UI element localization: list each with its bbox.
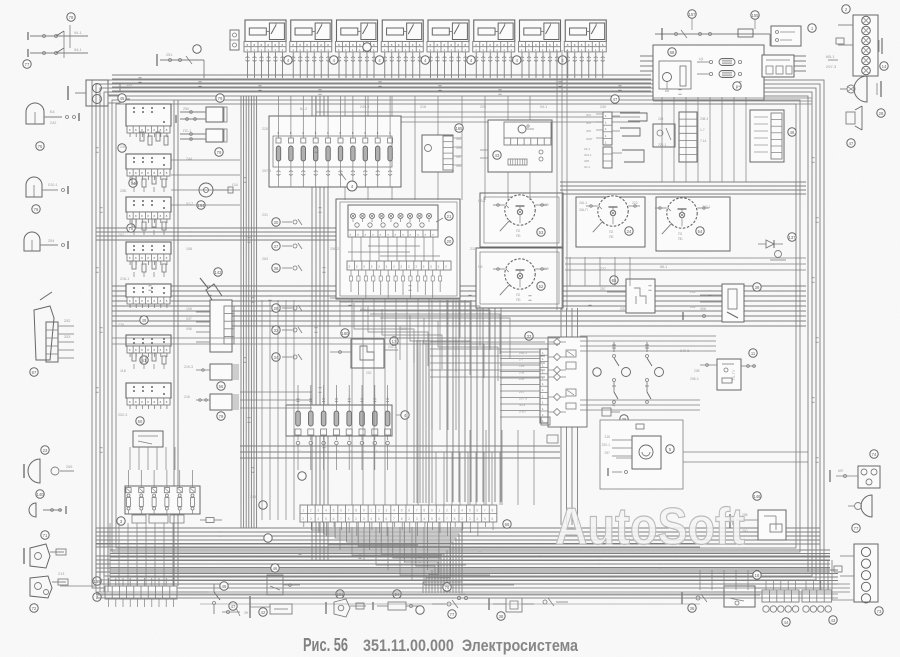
svg-text:244: 244 xyxy=(186,157,192,161)
svg-text:146: 146 xyxy=(754,494,762,499)
svg-text:242: 242 xyxy=(50,121,56,125)
svg-text:76: 76 xyxy=(445,585,450,590)
svg-text:6-8Л: 6-8Л xyxy=(519,410,526,414)
svg-text:94-1: 94-1 xyxy=(74,31,82,35)
svg-text:52: 52 xyxy=(539,284,544,289)
svg-text:108: 108 xyxy=(186,247,192,251)
svg-text:37: 37 xyxy=(274,244,279,249)
svg-text:7: 7 xyxy=(484,509,486,513)
svg-text:4: 4 xyxy=(317,517,319,521)
svg-text:9: 9 xyxy=(431,509,433,513)
svg-text:137: 137 xyxy=(789,235,797,240)
svg-text:43: 43 xyxy=(831,618,836,623)
svg-text:305: 305 xyxy=(586,129,591,133)
svg-text:3: 3 xyxy=(454,509,456,513)
svg-text:249-5: 249-5 xyxy=(680,349,689,353)
svg-text:210: 210 xyxy=(470,247,476,251)
svg-text:142: 142 xyxy=(215,270,223,275)
svg-text:297-3: 297-3 xyxy=(826,64,837,69)
svg-text:28: 28 xyxy=(879,111,884,116)
svg-text:155: 155 xyxy=(752,13,760,18)
svg-text:30-4: 30-4 xyxy=(584,165,590,169)
svg-text:207: 207 xyxy=(519,390,525,394)
svg-text:6: 6 xyxy=(386,517,388,521)
svg-text:7: 7 xyxy=(340,517,342,521)
svg-text:6: 6 xyxy=(439,517,441,521)
svg-text:Л10-1: Л10-1 xyxy=(48,183,58,187)
svg-text:263: 263 xyxy=(262,257,268,261)
svg-text:216: 216 xyxy=(604,435,610,439)
svg-text:096: 096 xyxy=(186,327,192,331)
svg-text:3: 3 xyxy=(416,517,418,521)
svg-text:3: 3 xyxy=(310,517,312,521)
svg-text:203: 203 xyxy=(400,327,406,331)
svg-text:18: 18 xyxy=(755,573,760,578)
svg-text:94-1: 94-1 xyxy=(74,48,82,52)
svg-text:697: 697 xyxy=(838,469,844,473)
svg-text:4: 4 xyxy=(393,509,395,513)
svg-text:309: 309 xyxy=(456,146,462,150)
svg-text:77: 77 xyxy=(450,612,455,617)
svg-text:ПС-1: ПС-1 xyxy=(183,129,191,133)
svg-text:208-3: 208-3 xyxy=(690,377,699,381)
svg-text:4: 4 xyxy=(461,509,463,513)
svg-text:36: 36 xyxy=(690,606,695,611)
svg-text:304: 304 xyxy=(586,121,591,125)
svg-text:1-7: 1-7 xyxy=(519,358,524,362)
svg-text:207-3: 207-3 xyxy=(519,397,527,401)
svg-text:2: 2 xyxy=(461,517,463,521)
svg-text:53: 53 xyxy=(539,230,544,235)
svg-text:259: 259 xyxy=(66,465,72,469)
svg-text:4: 4 xyxy=(476,517,478,521)
svg-text:232: 232 xyxy=(690,305,696,309)
svg-text:ПБ: ПБ xyxy=(516,234,521,238)
svg-text:7-14: 7-14 xyxy=(700,139,707,143)
svg-text:88-1: 88-1 xyxy=(660,265,667,269)
svg-text:8: 8 xyxy=(348,517,350,521)
svg-text:231: 231 xyxy=(262,213,268,217)
svg-text:2: 2 xyxy=(302,517,304,521)
svg-text:216-1: 216-1 xyxy=(120,277,129,281)
svg-text:45: 45 xyxy=(222,584,227,589)
svg-text:230-1: 230-1 xyxy=(519,351,527,355)
svg-text:71: 71 xyxy=(43,533,48,538)
svg-text:2: 2 xyxy=(355,517,357,521)
svg-text:2Ш-1: 2Ш-1 xyxy=(579,201,587,205)
svg-text:47: 47 xyxy=(849,141,854,146)
svg-text:297-1: 297-1 xyxy=(262,169,271,173)
svg-text:202-2: 202-2 xyxy=(388,345,397,349)
svg-text:252: 252 xyxy=(64,319,70,323)
svg-text:208: 208 xyxy=(519,371,525,375)
svg-text:П2: П2 xyxy=(609,230,613,234)
svg-text:43: 43 xyxy=(495,153,500,158)
svg-text:44: 44 xyxy=(784,620,789,625)
svg-text:202: 202 xyxy=(366,371,372,375)
svg-text:65: 65 xyxy=(612,278,617,283)
svg-text:139: 139 xyxy=(519,364,525,368)
svg-text:207: 207 xyxy=(118,233,124,237)
svg-text:ПБ: ПБ xyxy=(516,298,521,302)
svg-text:8: 8 xyxy=(355,509,357,513)
svg-text:79: 79 xyxy=(219,414,224,419)
svg-text:256-2: 256-2 xyxy=(330,247,339,251)
svg-text:219-3: 219-3 xyxy=(184,365,193,369)
svg-text:2Ш-П: 2Ш-П xyxy=(579,208,588,212)
svg-text:140: 140 xyxy=(37,492,45,497)
svg-text:254: 254 xyxy=(48,239,54,243)
svg-text:Рис. 56: Рис. 56 xyxy=(303,635,348,655)
svg-text:7: 7 xyxy=(416,509,418,513)
svg-text:36: 36 xyxy=(274,266,279,271)
svg-text:НБ: НБ xyxy=(478,265,483,269)
svg-text:8: 8 xyxy=(423,509,425,513)
svg-text:157: 157 xyxy=(689,12,697,17)
svg-text:160: 160 xyxy=(342,331,350,336)
svg-text:233: 233 xyxy=(620,307,626,311)
svg-text:СШ: СШ xyxy=(232,183,238,187)
svg-text:216: 216 xyxy=(184,395,190,399)
svg-text:7: 7 xyxy=(446,517,448,521)
svg-text:2: 2 xyxy=(408,517,410,521)
svg-text:66: 66 xyxy=(505,522,510,527)
svg-text:300: 300 xyxy=(456,164,462,168)
svg-text:214: 214 xyxy=(250,495,256,499)
svg-text:7: 7 xyxy=(393,517,395,521)
svg-text:3: 3 xyxy=(363,517,365,521)
svg-text:45: 45 xyxy=(120,96,125,101)
svg-text:208: 208 xyxy=(694,369,700,373)
svg-text:54: 54 xyxy=(698,229,703,234)
svg-text:ПБ: ПБ xyxy=(609,235,614,239)
svg-text:4: 4 xyxy=(423,517,425,521)
svg-text:351.11.00.000 Электросистема: 351.11.00.000 Электросистема xyxy=(363,637,579,655)
svg-text:118: 118 xyxy=(120,369,126,373)
svg-text:50: 50 xyxy=(138,419,143,424)
svg-text:30.3: 30.3 xyxy=(519,403,525,407)
svg-text:2: 2 xyxy=(446,509,448,513)
svg-text:6: 6 xyxy=(340,509,342,513)
svg-text:1: 1 xyxy=(439,509,441,513)
svg-text:76: 76 xyxy=(34,207,39,212)
svg-text:74: 74 xyxy=(131,181,136,186)
svg-text:39: 39 xyxy=(755,285,760,290)
svg-text:250: 250 xyxy=(183,107,189,111)
svg-text:209: 209 xyxy=(519,377,525,381)
svg-text:75: 75 xyxy=(38,144,43,149)
svg-text:49: 49 xyxy=(142,318,147,323)
svg-text:77: 77 xyxy=(25,62,30,67)
svg-text:222: 222 xyxy=(632,201,638,205)
svg-text:6: 6 xyxy=(408,509,410,513)
svg-text:П2: П2 xyxy=(678,232,682,236)
svg-text:29-4: 29-4 xyxy=(584,147,590,151)
svg-text:149: 149 xyxy=(126,83,132,87)
svg-text:297: 297 xyxy=(604,451,610,455)
svg-text:302: 302 xyxy=(586,113,591,117)
svg-text:47: 47 xyxy=(613,97,618,102)
svg-text:3: 3 xyxy=(469,517,471,521)
svg-text:108: 108 xyxy=(186,307,192,311)
svg-text:8: 8 xyxy=(401,517,403,521)
svg-text:П2: П2 xyxy=(516,229,520,233)
svg-text:5: 5 xyxy=(325,517,327,521)
svg-text:74: 74 xyxy=(872,452,877,457)
svg-text:46: 46 xyxy=(273,566,278,571)
svg-text:2: 2 xyxy=(310,509,312,513)
svg-text:2: 2 xyxy=(378,509,380,513)
svg-text:30: 30 xyxy=(274,220,279,225)
svg-text:AutoSoft: AutoSoft xyxy=(555,498,745,556)
svg-text:240: 240 xyxy=(600,105,606,109)
svg-text:6: 6 xyxy=(492,517,494,521)
svg-text:308: 308 xyxy=(584,159,589,163)
svg-text:79: 79 xyxy=(217,150,222,155)
svg-text:47: 47 xyxy=(231,604,236,609)
svg-text:231: 231 xyxy=(690,290,696,294)
svg-text:21: 21 xyxy=(447,214,452,219)
svg-text:НБ-1: НБ-1 xyxy=(478,199,486,203)
svg-text:218: 218 xyxy=(420,105,426,109)
svg-text:9: 9 xyxy=(363,509,365,513)
svg-text:261: 261 xyxy=(360,307,366,311)
svg-text:238: 238 xyxy=(118,323,124,327)
svg-text:304-1: 304-1 xyxy=(584,153,592,157)
svg-text:68: 68 xyxy=(670,50,675,55)
svg-text:73: 73 xyxy=(877,609,882,614)
svg-text:205: 205 xyxy=(480,105,486,109)
svg-text:84-2: 84-2 xyxy=(300,107,307,111)
svg-text:97-2: 97-2 xyxy=(186,202,193,206)
svg-text:1-7: 1-7 xyxy=(700,128,705,132)
svg-text:8: 8 xyxy=(492,509,494,513)
svg-text:46: 46 xyxy=(790,130,795,135)
svg-text:306: 306 xyxy=(700,307,706,311)
svg-text:302: 302 xyxy=(456,137,462,141)
svg-text:Б4: Б4 xyxy=(50,110,55,114)
svg-text:79: 79 xyxy=(218,96,223,101)
svg-text:3: 3 xyxy=(317,509,319,513)
svg-text:77: 77 xyxy=(854,526,859,531)
svg-text:213: 213 xyxy=(58,572,64,576)
svg-text:253: 253 xyxy=(64,335,70,339)
svg-text:4: 4 xyxy=(325,509,327,513)
svg-text:1: 1 xyxy=(302,509,304,513)
svg-text:1: 1 xyxy=(370,509,372,513)
svg-text:94-1: 94-1 xyxy=(540,105,547,109)
svg-text:6: 6 xyxy=(333,517,335,521)
svg-text:5: 5 xyxy=(469,509,471,513)
svg-text:5: 5 xyxy=(333,509,335,513)
svg-text:56: 56 xyxy=(219,384,224,389)
svg-text:П2: П2 xyxy=(516,293,520,297)
svg-text:3Н: 3Н xyxy=(244,611,249,615)
svg-text:251: 251 xyxy=(166,53,172,57)
svg-text:78: 78 xyxy=(69,15,74,20)
svg-text:257: 257 xyxy=(600,287,606,291)
svg-text:240-1: 240-1 xyxy=(702,205,711,209)
svg-text:3: 3 xyxy=(386,509,388,513)
svg-text:5: 5 xyxy=(401,509,403,513)
svg-text:5: 5 xyxy=(431,517,433,521)
svg-text:42: 42 xyxy=(261,610,266,615)
svg-text:165: 165 xyxy=(456,126,464,131)
svg-text:249-3: 249-3 xyxy=(360,105,369,109)
svg-text:25Б: 25Б xyxy=(120,189,127,193)
svg-text:20: 20 xyxy=(447,239,452,244)
svg-text:КВ-1: КВ-1 xyxy=(826,54,835,59)
svg-text:097: 097 xyxy=(186,317,192,321)
svg-text:23: 23 xyxy=(43,448,48,453)
svg-text:11: 11 xyxy=(751,351,756,356)
svg-text:72: 72 xyxy=(32,606,37,611)
svg-text:5: 5 xyxy=(484,517,486,521)
svg-text:7: 7 xyxy=(348,509,350,513)
svg-text:300Г: 300Г xyxy=(586,137,593,141)
svg-text:220-1: 220-1 xyxy=(602,443,611,447)
svg-text:220: 220 xyxy=(262,127,268,131)
svg-text:Ц1: Ц1 xyxy=(699,57,704,61)
svg-text:24: 24 xyxy=(627,229,632,234)
svg-text:67: 67 xyxy=(32,370,37,375)
svg-text:222: 222 xyxy=(600,267,606,271)
svg-text:208-3: 208-3 xyxy=(700,117,708,121)
svg-text:249: 249 xyxy=(120,145,126,149)
svg-text:249: 249 xyxy=(543,267,549,271)
svg-text:38: 38 xyxy=(499,614,504,619)
svg-text:249: 249 xyxy=(658,117,664,121)
svg-text:04Г: 04Г xyxy=(456,155,462,159)
svg-text:5: 5 xyxy=(378,517,380,521)
svg-text:8: 8 xyxy=(454,517,456,521)
svg-text:ПБ: ПБ xyxy=(678,237,683,241)
svg-text:199: 199 xyxy=(543,203,549,207)
svg-text:6: 6 xyxy=(476,509,478,513)
svg-text:4: 4 xyxy=(370,517,372,521)
svg-text:14: 14 xyxy=(882,64,887,69)
svg-text:202-3: 202-3 xyxy=(118,413,127,417)
